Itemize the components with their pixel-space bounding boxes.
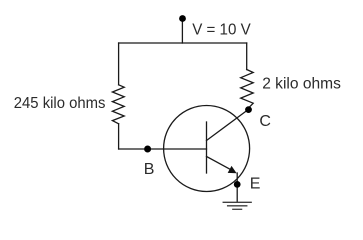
svg-text:245 kilo ohms: 245 kilo ohms — [14, 95, 106, 112]
svg-text:E: E — [250, 176, 261, 193]
svg-text:C: C — [259, 113, 271, 130]
svg-text:2 kilo ohms: 2 kilo ohms — [262, 76, 341, 93]
svg-text:V = 10 V: V = 10 V — [192, 21, 251, 38]
svg-text:B: B — [144, 161, 155, 178]
